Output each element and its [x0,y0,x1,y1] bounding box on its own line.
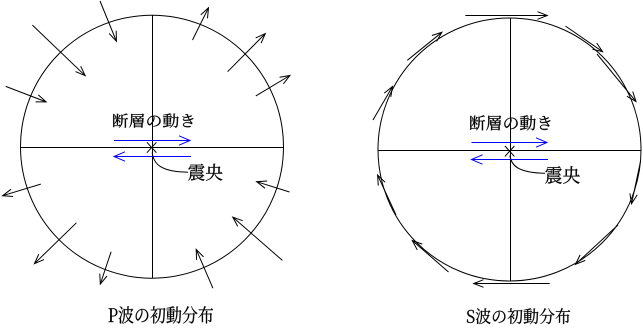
label 断層の動き (right) [470,115,550,130]
horizontal diameter line (right) [378,150,641,152]
S chord arrow upper-right 1 [566,26,603,52]
S chord arrow upper-right 2 [597,54,636,102]
P arrow upper-left shallow (inward) [6,86,46,102]
P arrow lower-left steep (outward) [100,252,111,284]
S-wave circle [378,18,641,281]
S chord arrow upper-left 2 [407,32,442,60]
label 断層の動き (left) [113,113,193,127]
P arrow upper-left steep (inward) [100,1,116,41]
S tangent arrow top (rightward) [465,12,547,20]
P-wave circle [21,15,284,278]
vertical diameter line (right) [510,18,512,281]
horizontal diameter line (left) [21,147,284,149]
epicenter leader curve (right) [510,156,545,174]
X epicenter mark (left) [147,142,157,152]
caption P波の初動分布 [109,306,214,323]
P arrow upper-right steep (outward) [193,8,209,40]
caption S波の初動分布 [467,308,570,324]
S chord arrow lower-left 2 [378,175,396,215]
blue fault-motion arrow right (right diagram) [472,138,548,147]
vertical diameter line (left) [152,15,154,279]
P arrow upper-right shallow (outward) [256,76,290,96]
S chord arrow upper-left 1 [373,87,393,121]
blue fault-motion arrow right (left diagram) [114,136,190,145]
S tangent arrow bottom (leftward) [474,280,550,288]
P arrow lower-right 45deg (inward) [233,217,283,260]
S chord arrow lower-left 1 [412,241,448,273]
epicenter leader curve (left) [152,153,188,173]
X epicenter mark (right) [505,146,515,156]
P arrow lower-right shallow (inward) [257,181,290,192]
label 震央 (right) [545,166,579,184]
S chord arrow lower-right 1 [630,162,641,204]
blue fault-motion arrow left (left diagram) [114,152,191,161]
P arrow upper-right 45deg (outward) [228,34,266,72]
P arrow lower-left shallow (outward) [3,184,41,196]
P arrow lower-left 45deg (outward) [34,223,76,264]
P arrow upper-left 45deg (inward) [32,25,85,76]
label 震央 (left) [188,164,222,181]
blue fault-motion arrow left (right diagram) [472,155,549,164]
P arrow lower-right steep (inward) [196,249,213,288]
S chord arrow lower-right 2 [576,225,619,264]
